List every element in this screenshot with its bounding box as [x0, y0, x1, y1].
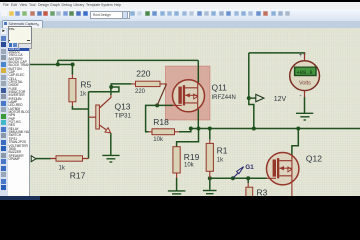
voltmeter: [290, 52, 320, 98]
wire riser at node A: [57, 60, 59, 64]
tab: [2, 20, 43, 29]
probe G1: [233, 163, 254, 177]
tab bar: [0, 21, 360, 28]
mosfet Q11 IRFZ44N: [172, 79, 235, 111]
junction at Q13 collector node: [109, 84, 113, 88]
svg-text:R3: R3: [256, 187, 267, 196]
junction at R5 top: [71, 62, 75, 66]
resistor R18: [149, 117, 179, 143]
junction rail at Q12 drain: [296, 126, 300, 130]
svg-text:IRFZ44N: IRFZ44N: [211, 94, 235, 100]
resistor R17: [51, 155, 89, 180]
junction rail at Q11 source: [196, 126, 200, 130]
wire diagonal 220 to gate node: [157, 83, 166, 104]
junction at probe G1: [231, 176, 235, 180]
menu bar: [0, 2, 360, 9]
svg-text:10k: 10k: [184, 162, 194, 168]
mosfet Q12: [266, 152, 322, 196]
wire rail to R19 top: [177, 128, 199, 146]
power terminal 12V: [249, 94, 287, 102]
resistor R19: [173, 146, 200, 177]
svg-text:Q12: Q12: [306, 153, 322, 163]
wire base node vertical: [88, 91, 90, 158]
junction rail at R18: [189, 126, 193, 130]
wire top-left horizontal: [29, 63, 72, 65]
svg-text:Volts: Volts: [299, 80, 311, 86]
wire rail to R1 top: [209, 128, 211, 139]
wire Q13 collector drop: [110, 86, 112, 94]
svg-text:R5: R5: [80, 79, 91, 89]
preview pane: [8, 26, 33, 45]
junction at input rail riser: [56, 62, 60, 66]
ground below voltmeter: [296, 113, 313, 120]
svg-text:1k: 1k: [80, 91, 86, 97]
left icon strip: [0, 28, 8, 196]
svg-text:R18: R18: [153, 117, 169, 127]
wire R19 bottom to ground: [176, 177, 178, 190]
transistor Q13 TIP31: [89, 94, 132, 132]
svg-text:G1: G1: [245, 163, 254, 170]
wire Q11 drain drop: [197, 60, 199, 82]
svg-text:-: -: [299, 93, 301, 99]
resistor R3: [246, 182, 268, 196]
svg-text:1k: 1k: [59, 165, 65, 171]
top black bar: [0, 0, 360, 2]
ground below R19: [168, 190, 186, 193]
wire rail to Q12 drain: [292, 128, 298, 155]
junction at R1 bottom: [208, 176, 212, 180]
svg-text:Q13: Q13: [115, 101, 131, 111]
svg-text:TIP31: TIP31: [115, 113, 132, 119]
svg-text:10k: 10k: [153, 136, 163, 142]
selection highlight around Q11: [165, 66, 210, 120]
svg-text:220: 220: [135, 89, 146, 95]
component list: [8, 48, 31, 196]
resistor R1: [206, 139, 228, 177]
wire R1 bottom ground stem: [209, 178, 211, 190]
wire upper rail to Q11 drain: [58, 59, 198, 61]
wire R5 bottom to base node: [72, 105, 88, 108]
svg-text:1k: 1k: [217, 157, 223, 163]
wire bottom rail R1 to Q12 gate: [210, 177, 267, 179]
wire node to 220 left: [111, 83, 131, 86]
wire 12V riser upper: [248, 52, 250, 97]
svg-text:220: 220: [136, 68, 150, 78]
wire Q11 source to main rail: [197, 109, 199, 128]
wire voltmeter minus to ground: [303, 96, 305, 112]
ground below R1: [203, 190, 216, 193]
svg-text:R1: R1: [217, 145, 228, 155]
svg-text:Q11: Q11: [211, 82, 227, 92]
junction rail at R1 top: [208, 126, 212, 130]
svg-text:12V: 12V: [274, 95, 287, 102]
bottom navy segment: [0, 196, 40, 200]
junction at R3 top: [246, 176, 250, 180]
toolbar: [0, 9, 360, 22]
ground below Q13: [102, 155, 119, 162]
svg-text:R19: R19: [184, 151, 200, 161]
P L buttons row: [8, 43, 31, 48]
wire gate node to Q11 gate: [157, 104, 173, 106]
schematic canvas: [29, 28, 360, 196]
wire R3 top feed: [247, 178, 249, 183]
junction rail at 12V riser: [252, 126, 256, 130]
wire R5 top lead: [71, 64, 73, 74]
wire gate node to R18 left: [146, 105, 158, 131]
svg-text:R17: R17: [70, 170, 86, 180]
junction at 12V terminal node: [247, 96, 251, 100]
wire main rail: [191, 127, 360, 129]
svg-text:+: +: [299, 53, 303, 59]
resistor R5: [69, 74, 92, 105]
input terminal: [31, 155, 50, 161]
resistor 220: [131, 68, 166, 95]
bottom black bar: [0, 196, 360, 202]
wire Q13 emitter to ground: [110, 132, 112, 154]
wire base node top to jog: [89, 86, 119, 91]
wire R18 right to main rail: [179, 128, 191, 131]
junction at Q11 gate node: [155, 103, 159, 107]
wire 12V riser lower: [249, 98, 254, 128]
wire top to voltmeter plus: [249, 52, 305, 54]
svg-text:+88.8: +88.8: [296, 70, 312, 76]
